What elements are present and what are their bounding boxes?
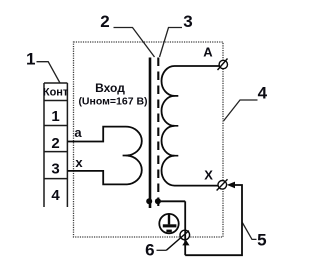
- leader line 5 (to wire): [242, 223, 256, 240]
- leader line 2 (to core): [114, 28, 155, 58]
- svg-text:Вход: Вход: [95, 81, 125, 95]
- svg-text:X: X: [204, 167, 213, 182]
- primary winding cusp tick: [123, 155, 127, 157]
- terminal A (circle with slash): [218, 59, 228, 71]
- wire through terminal 6: [184, 201, 186, 255]
- leader line 6 (to terminal): [157, 249, 167, 251]
- connector table frame (Конт): [44, 83, 67, 207]
- svg-text:5: 5: [257, 230, 266, 249]
- svg-text:4: 4: [51, 187, 60, 204]
- leader line 1: [37, 62, 61, 83]
- secondary winding cusp ticks: [174, 96, 179, 156]
- svg-text:A: A: [203, 45, 213, 60]
- slash of terminal 6 (merged with leader 6): [166, 231, 189, 251]
- junction dot on core: [146, 198, 152, 204]
- svg-text:1: 1: [26, 50, 35, 69]
- svg-text:a: a: [74, 125, 82, 140]
- protective earth symbol: [159, 214, 178, 233]
- svg-text:Конт: Конт: [43, 87, 69, 99]
- svg-text:x: x: [75, 155, 83, 170]
- svg-text:4: 4: [258, 84, 268, 103]
- wire from shield junction down to terminal 6: [158, 200, 185, 202]
- svg-text:1: 1: [51, 108, 59, 125]
- svg-text:6: 6: [145, 241, 154, 260]
- terminal X (circle with slash): [217, 179, 228, 190]
- svg-text:2: 2: [100, 12, 109, 31]
- secondary winding W2: [162, 66, 220, 186]
- electrostatic shield (dashed line): [157, 58, 159, 207]
- arrow at terminal X: [227, 182, 235, 189]
- primary winding W1 with a/x lead wires: [68, 127, 142, 185]
- svg-text:2: 2: [51, 135, 59, 152]
- leader line 3 (to shield): [160, 28, 183, 58]
- leader line 4 (to boundary): [224, 100, 258, 121]
- arrow at terminal 6: [182, 240, 189, 246]
- external wire from X around to terminal 6: [185, 185, 242, 255]
- terminal 6 (circle with slash): [180, 230, 190, 240]
- junction dot on shield: [155, 198, 161, 204]
- svg-text:3: 3: [51, 160, 59, 177]
- screen boundary box (dotted): [74, 42, 224, 237]
- svg-text:(Uном=167 В): (Uном=167 В): [78, 95, 147, 107]
- magnetic core (solid line): [149, 58, 152, 209]
- svg-text:3: 3: [183, 12, 192, 31]
